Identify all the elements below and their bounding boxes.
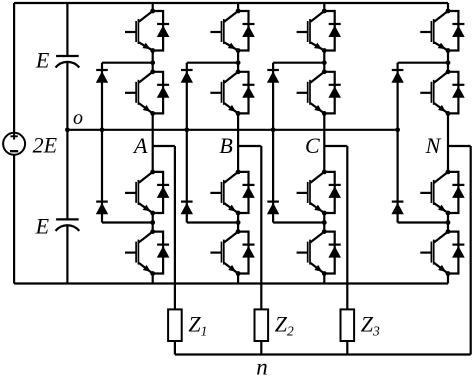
svg-text:A: A [132, 133, 148, 158]
svg-text:Z: Z [275, 312, 288, 337]
svg-text:Z: Z [361, 312, 374, 337]
svg-text:1: 1 [201, 324, 208, 339]
svg-text:E: E [35, 214, 50, 239]
svg-text:3: 3 [372, 324, 380, 339]
svg-text:N: N [425, 133, 442, 158]
svg-text:2E: 2E [33, 133, 58, 158]
svg-text:C: C [305, 133, 320, 158]
svg-text:n: n [256, 355, 268, 377]
svg-text:2: 2 [287, 324, 294, 339]
svg-text:Z: Z [188, 312, 201, 337]
svg-text:E: E [35, 48, 50, 73]
svg-text:B: B [219, 133, 232, 158]
svg-text:o: o [73, 107, 83, 129]
